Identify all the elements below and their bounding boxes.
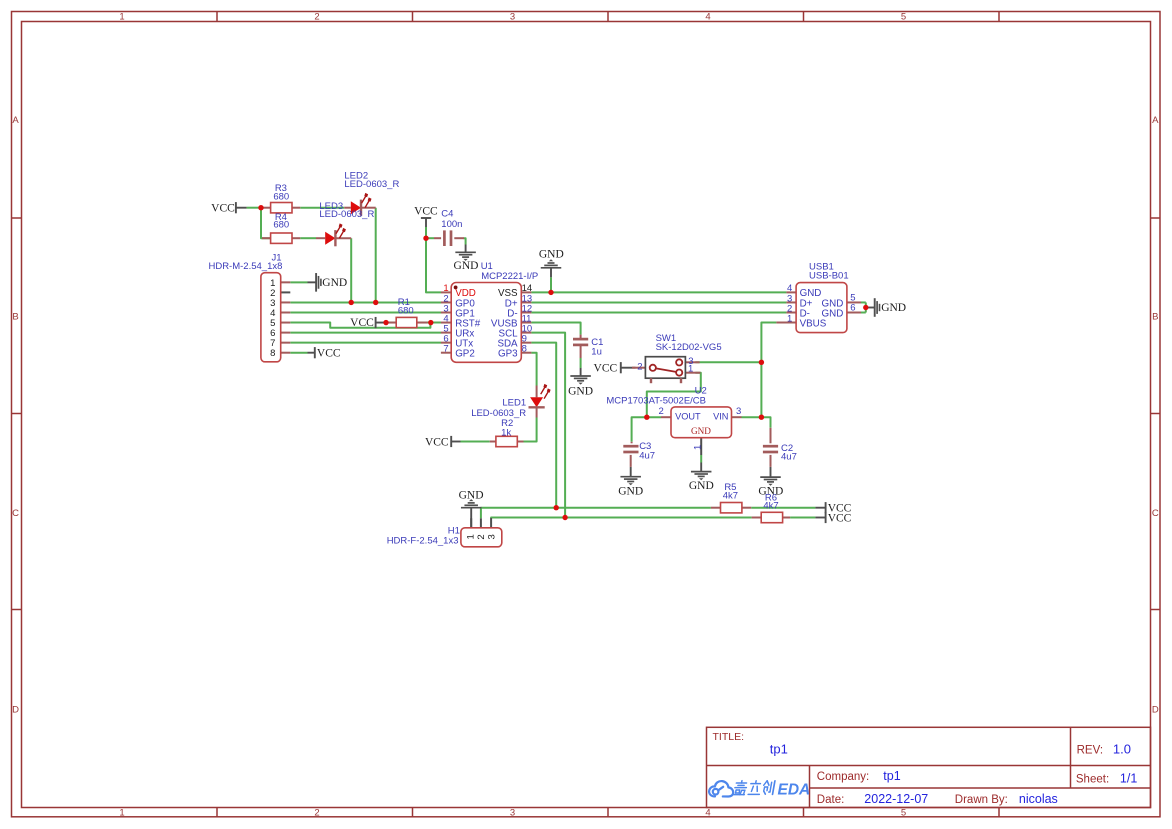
connector H1 [461,518,502,547]
svg-text:MCP2221-I/P: MCP2221-I/P [481,271,538,282]
svg-text:GND: GND [881,302,906,314]
svg-text:8: 8 [270,348,275,359]
resistor R1 [388,317,428,327]
power flag VCC (R5 row) [815,502,851,514]
wire C1 bottom lead to GND [580,358,582,368]
svg-text:B: B [12,311,18,322]
junction R1 to RST row [428,320,433,325]
LED LED2 [344,193,376,216]
wire U1 VUSB to C1 [531,323,580,335]
svg-text:VCC: VCC [414,206,438,218]
wire SW1 pin3 to VBUS column [695,361,761,363]
svg-text:VCC: VCC [350,317,374,329]
pin number U2-1 [693,445,704,450]
power flag VCC (R1) [350,317,386,329]
svg-text:EDA: EDA [778,782,811,799]
wire J1 pin8 to VCC flag [290,352,307,354]
wire U1 SCL down to R6 row [531,333,565,518]
ground flag GND (C4) [454,245,479,272]
svg-text:GND: GND [454,260,479,272]
svg-text:VBUS: VBUS [800,318,827,329]
svg-text:3: 3 [510,11,515,22]
wire H1 pin3 up to R6 row [491,517,751,520]
wire LED2 cathode down to GP0 row [375,208,377,303]
svg-text:LED1: LED1 [502,398,526,409]
ground flag GND (USB1 shield) [866,298,906,317]
svg-text:LED-0603_R: LED-0603_R [319,209,374,220]
svg-text:6: 6 [850,303,855,314]
connector J1 [261,273,290,362]
logo JLCEDA cloud [709,781,733,796]
wire U2 VIN to VBUS column [742,416,762,418]
svg-text:nicolas: nicolas [1019,792,1058,806]
svg-text:1/1: 1/1 [1120,772,1137,786]
svg-text:B: B [1152,311,1158,322]
svg-text:Company:: Company: [817,771,869,783]
junction SDA at R5 row [554,505,559,510]
svg-text:Sheet:: Sheet: [1076,774,1109,786]
svg-text:SK-12D02-VG5: SK-12D02-VG5 [656,342,722,353]
LED LED3 [316,223,351,246]
IC U1 MCP2221 [441,283,532,363]
svg-text:C: C [1152,508,1159,519]
ground flag GND (C3) [618,467,643,497]
IC USB1 USB-B01 [776,283,861,333]
svg-text:GND: GND [322,277,347,289]
svg-text:8: 8 [522,344,527,355]
svg-text:5: 5 [901,11,906,22]
junction VCC flag at R1 [383,320,388,325]
svg-text:VCC: VCC [425,436,449,448]
junction SCL at R6 row [562,515,567,520]
svg-text:5: 5 [901,807,906,818]
wire U2 GND pin segment [700,455,702,463]
wire VBUS down to U2 VIN [761,323,776,418]
svg-text:C4: C4 [441,208,453,219]
wire VSS row U1 pin14 to USB1 pin4 [531,291,786,293]
switch SW1 [632,357,700,384]
wire J1 pin1 to GND flag [290,281,307,283]
wire VCC column down to R4 row [261,208,271,239]
svg-text:100n: 100n [441,219,462,230]
svg-text:GND: GND [568,386,593,398]
junction GND at VSS row [548,290,553,295]
svg-text:4: 4 [705,807,710,818]
svg-text:1: 1 [688,364,693,375]
svg-text:1.0: 1.0 [1113,742,1131,757]
svg-text:680: 680 [273,192,289,203]
wire SW1 pin1 to VOUT node [647,373,701,418]
junction at VCC/R3/R4 [258,205,263,210]
wire J1 pin4 to U1 GP1 [290,312,441,314]
svg-text:USB-B01: USB-B01 [809,270,849,281]
svg-text:680: 680 [398,306,414,317]
capacitor C3 [623,442,638,467]
power flag VCC (R6 row) [815,512,851,524]
wire R4 to LED3 [300,237,316,239]
junction SW1 pin3 at VBUS column [759,360,764,365]
title block [707,727,1151,807]
svg-text:4u7: 4u7 [781,451,797,462]
svg-text:tp1: tp1 [770,742,788,757]
wire J1 pin6 to U1 URx [290,332,441,334]
svg-text:LED-0603_R: LED-0603_R [471,408,526,419]
wire USB1 pin5 to GND link [861,301,866,303]
svg-text:1: 1 [693,445,704,450]
svg-text:MCP1703AT-5002E/CB: MCP1703AT-5002E/CB [606,396,706,407]
wire VCC top down to U1 VDD [426,227,441,292]
resistor R5 [711,503,751,513]
svg-text:GND: GND [822,308,844,319]
power flag VCC (SW1) [594,362,636,375]
svg-text:D: D [12,704,19,715]
svg-text:2: 2 [659,406,664,417]
svg-text:tp1: tp1 [883,769,900,783]
wire J1 pin5 jog to U1 RST# [290,323,430,328]
svg-text:2: 2 [637,361,642,372]
svg-text:GP2: GP2 [455,349,475,360]
svg-text:4k7: 4k7 [723,491,738,502]
svg-text:Date:: Date: [817,794,845,806]
junction VIN node [759,415,764,420]
junction USB1 GND flag [863,305,868,310]
resistor R4 [262,233,300,243]
wire J1 pin7 to U1 UTx [290,342,441,344]
svg-text:3: 3 [510,807,515,818]
ground flag GND (C2) [758,467,783,498]
wire U1 GP3 down to LED1 [531,353,536,386]
junction LED2 at GP0 row [373,300,378,305]
svg-text:VCC: VCC [828,512,852,524]
svg-text:VIN: VIN [713,411,728,421]
junction LED3 at GP0 row [349,300,354,305]
wire R6 to VCC flag [790,517,815,519]
svg-text:1: 1 [787,313,792,324]
svg-text:2022-12-07: 2022-12-07 [864,792,928,806]
wire RST# row through R1 [386,322,441,324]
LED LED1 [529,384,551,418]
svg-text:Drawn By:: Drawn By: [955,794,1008,806]
capacitor C2 [763,428,778,467]
svg-text:REV:: REV: [1077,745,1103,757]
svg-text:VCC: VCC [317,347,341,359]
wire VCC flag to R2 [461,441,490,443]
resistor R3 [261,203,300,213]
svg-text:1: 1 [119,807,124,818]
wire LED1 cathode to R2 [524,418,537,442]
wire VOUT row to C3 [632,417,661,442]
ground flag GND (C1) [568,368,593,398]
ground flag GND (J1 pin1) [308,273,348,292]
ground flag GND (H1 pin1) [459,490,484,528]
wire R3 to LED2 [300,207,344,209]
svg-text:3: 3 [486,534,497,539]
svg-text:4: 4 [705,11,710,22]
svg-text:2: 2 [476,534,487,539]
power flag VCC (J1 pin8) [308,347,341,359]
wire LED3 cathode down to GP0 row [350,238,352,302]
svg-text:1u: 1u [591,346,602,357]
svg-text:HDR-F-2.54_1x3: HDR-F-2.54_1x3 [387,536,459,547]
svg-text:2: 2 [314,807,319,818]
wire D+ row U1 pin13 to USB1 pin3 [531,301,786,303]
svg-text:GND: GND [689,480,714,492]
wire D- row U1 pin12 to USB1 pin2 [531,312,786,314]
svg-text:GND: GND [459,490,484,502]
capacitor C4 [434,230,464,246]
svg-text:4u7: 4u7 [639,450,655,461]
wire C4 right to GND drop [464,238,466,244]
power flag VCC (left of R3) [211,202,246,215]
svg-text:680: 680 [273,220,289,231]
wire VBUS column to C2 [761,417,770,428]
wire J1 pin3 to U1 GP0 [290,301,441,303]
svg-text:GND: GND [691,426,711,436]
ground flag GND (U2) [689,463,714,493]
power flag VCC (R2) [425,436,461,449]
wire USB1 pin6 to GND link [861,312,866,314]
svg-text:A: A [1152,115,1159,126]
resistor R2 [490,436,524,446]
svg-text:4k7: 4k7 [763,501,778,512]
wire VCC to R3 [247,207,261,209]
wire C4 left lead tap [426,237,434,239]
svg-text:VCC: VCC [594,363,618,375]
regulator U2 MCP1703 [661,407,742,455]
junction VOUT node [644,415,649,420]
svg-text:C: C [12,508,19,519]
wire USB1 GND vertical link [865,302,867,312]
resistor R6 [752,512,791,522]
wire U1 SDA down to R5 row [531,343,556,508]
svg-text:1: 1 [119,11,124,22]
svg-text:D: D [1152,704,1159,715]
ground flag GND (VSS row) [539,249,564,278]
power flag VCC (above C4) [414,206,438,228]
wire H1 pin2 up to R5 row [481,508,711,519]
svg-text:7: 7 [443,344,448,355]
svg-text:1: 1 [466,534,477,539]
svg-text:2: 2 [314,11,319,22]
svg-text:VCC: VCC [211,203,235,215]
svg-text:LED-0603_R: LED-0603_R [344,179,399,190]
wire GND flag drop at VSS row [550,277,552,292]
junction VDD column at C4 [423,236,428,241]
wire R5 to VCC flag [751,507,815,509]
svg-text:GP3: GP3 [498,349,518,360]
svg-text:GND: GND [539,249,564,261]
svg-text:TITLE:: TITLE: [713,731,745,743]
svg-text:VOUT: VOUT [675,411,701,421]
svg-text:3: 3 [736,406,741,417]
logo JLCEDA text [734,781,775,795]
svg-text:1k: 1k [501,428,511,439]
svg-text:A: A [12,115,19,126]
svg-text:HDR-M-2.54_1x8: HDR-M-2.54_1x8 [208,261,282,272]
capacitor C1 [573,335,588,358]
svg-text:GND: GND [618,485,643,497]
